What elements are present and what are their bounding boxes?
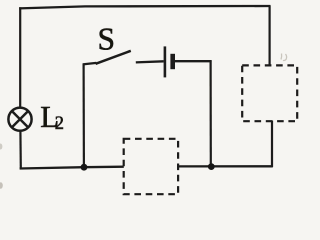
svg-text:2: 2 xyxy=(55,114,64,134)
svg-text:S: S xyxy=(98,21,116,56)
